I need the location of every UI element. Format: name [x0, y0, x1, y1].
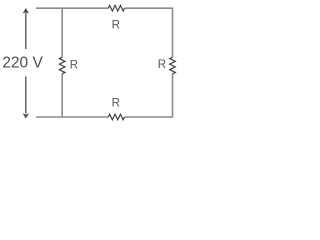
svg-text:220 V: 220 V: [2, 54, 43, 71]
svg-text:R: R: [158, 59, 166, 71]
svg-text:R: R: [112, 98, 120, 110]
svg-text:R: R: [70, 59, 78, 71]
svg-text:R: R: [112, 19, 120, 31]
